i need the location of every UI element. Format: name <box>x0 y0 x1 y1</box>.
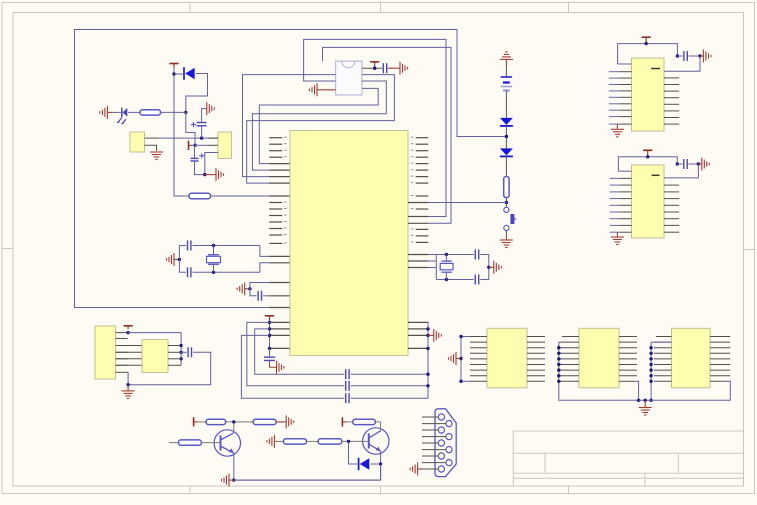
U1 left pins <box>269 137 289 348</box>
node junction X2 top <box>445 253 448 256</box>
wire emitter rail <box>234 479 381 481</box>
U6 pins <box>470 337 545 382</box>
ground chain top up <box>500 52 513 60</box>
U4 right pins <box>664 185 679 232</box>
wire U2 rightA to cap <box>362 65 382 68</box>
ground C1 right <box>207 102 215 115</box>
node junction U3 power <box>645 42 648 45</box>
wire U2 leftB loop to U1 right pin <box>304 39 446 216</box>
node junction rail2 <box>268 327 271 330</box>
ground C9 right <box>277 361 285 374</box>
title block <box>513 431 743 486</box>
J4 pin lines <box>422 417 446 463</box>
crystal Y2 <box>440 255 453 280</box>
wire C9 to ground <box>270 361 277 368</box>
node junction X1 left <box>178 258 181 261</box>
power bar U1 bottom-left <box>265 316 274 320</box>
IC U5 <box>142 340 168 373</box>
diode D4 <box>359 458 370 471</box>
IC U3 <box>632 58 665 131</box>
capacitor C6 <box>346 369 349 379</box>
capacitor C4 <box>188 267 191 277</box>
power bar VCC top-left <box>169 64 178 68</box>
node junction cap bus1 <box>426 327 429 330</box>
ground J3 bottom <box>122 391 135 399</box>
node junction C1 tap <box>200 136 203 139</box>
node junction VCC-D1 <box>172 72 175 75</box>
U3 left pins <box>609 72 632 124</box>
wire J1 pin1 to J2 pin1 <box>145 137 219 139</box>
IC U6 <box>487 328 527 388</box>
capacitor C1 polarized <box>191 122 207 127</box>
wire X1 ground stub <box>174 259 179 261</box>
node junction U4 cap right <box>697 162 700 165</box>
wire X2 ground stub <box>489 266 494 268</box>
connector J2 small <box>218 132 232 159</box>
wire X2 right mid <box>488 261 490 273</box>
node junction J3 ground <box>126 383 129 386</box>
ground LED left <box>100 106 112 119</box>
wire U2 rightB staircase <box>247 75 395 184</box>
battery B1 <box>501 77 512 91</box>
wire U2 leftA to U1 pin7 <box>243 75 336 177</box>
wire X2 top branch <box>436 255 489 262</box>
wire LED junction down to power-port node <box>186 112 195 145</box>
ground rail left <box>222 474 230 487</box>
wire U4 bottom pin to ground <box>616 232 618 236</box>
wire chain top stub <box>505 59 507 76</box>
wire rail ground stem <box>644 400 646 407</box>
switch SW1 <box>504 207 516 230</box>
J4 pin circles <box>438 414 452 472</box>
power bar Q1 <box>194 417 198 426</box>
wire C1 to ground <box>202 109 207 139</box>
transistor Q1 <box>214 430 240 456</box>
LED DS1 <box>117 108 127 124</box>
wire U3 bottom pin to ground <box>616 124 618 129</box>
node junction bus1 <box>179 344 182 347</box>
node junction rail3 <box>268 334 271 337</box>
connector J4 DB9 outline <box>435 409 456 477</box>
wire X1 bottom branch <box>179 260 269 273</box>
ground U3 right <box>703 50 711 63</box>
wire U2 ground stub <box>317 89 336 91</box>
node junction rail B <box>649 399 652 402</box>
wire X2 left bus <box>428 255 436 280</box>
wire X1 top branch <box>179 246 269 260</box>
wire chain to U1 pin <box>428 202 506 204</box>
node junction bus2 <box>179 351 182 354</box>
node junction chain loop <box>505 135 508 138</box>
diode D3 <box>500 148 513 156</box>
node junction C2 ground <box>203 173 206 176</box>
wire U4 right pin loop <box>664 164 698 178</box>
ground U3 bottom <box>611 129 624 137</box>
wire Q1 emitter <box>233 453 235 480</box>
wire C13 loop to ground <box>128 352 211 384</box>
node junction Q2 base <box>347 440 350 443</box>
ground R4 right <box>286 415 294 428</box>
U5 right pins <box>168 346 181 366</box>
wire U4 cap stub <box>698 163 701 165</box>
wire U7 bottom right pin <box>619 381 639 400</box>
wire LED to R1 <box>112 111 140 113</box>
wire U3 right pin loop <box>664 56 700 71</box>
wire C2 bottom to ground node <box>195 161 205 175</box>
resistor R6 <box>284 439 307 444</box>
wire J1 pin2 to ground <box>145 145 157 151</box>
wire C5 top branch <box>250 283 270 289</box>
node junction U2 power <box>373 67 376 70</box>
node junction Q1 collector <box>232 420 235 423</box>
node junction U3 cap right <box>698 54 701 57</box>
wire U6 ground stub <box>456 358 461 360</box>
node junction J3 pin1 <box>126 331 129 334</box>
wire U8 bottom right loop <box>651 381 730 400</box>
wire staircase net A <box>247 322 428 385</box>
wire J3 pins to U5 <box>116 346 143 366</box>
connector J3 <box>95 326 116 379</box>
ground J1 down <box>150 152 163 160</box>
resistor R1 <box>140 110 161 115</box>
wire Q2 collector <box>346 422 380 431</box>
wire stub to ground right <box>205 174 216 176</box>
ground chain bottom <box>500 240 513 248</box>
node junction rail4 <box>268 347 271 350</box>
wire U7 bus <box>559 342 639 400</box>
power bar U2 <box>370 62 379 65</box>
node junction Q1 emitter rail <box>232 478 235 481</box>
node junction rail C <box>644 399 647 402</box>
node junction U4 cap left <box>676 162 679 165</box>
wire J3 pin1 to bus <box>128 333 182 366</box>
wire Q2 emitter down <box>380 451 382 480</box>
wire X2 bottom branch <box>436 273 489 280</box>
U4 left pins <box>610 178 632 232</box>
node junction X2 ground <box>487 266 490 269</box>
node junction U6 bottom <box>459 380 462 383</box>
wire R1 to junction <box>161 111 186 113</box>
wire stub cap bus ground <box>428 334 434 336</box>
node junction Q2 emitter <box>379 462 382 465</box>
capacitor C13 <box>188 347 191 357</box>
node junction cap bus2 <box>426 334 429 337</box>
ground X2 right <box>494 261 502 274</box>
capacitor C12 <box>684 159 687 169</box>
IC U7 <box>579 328 619 388</box>
wire ground rail <box>639 399 652 401</box>
wire VCC vertical to R2 to U1 pin <box>174 68 270 197</box>
resistor R9 <box>504 177 509 198</box>
node junction cap bus4 <box>426 373 429 376</box>
wire R5 to Q1 base <box>201 442 220 444</box>
wire power to J2 pin2 <box>192 138 218 152</box>
capacitor C8 <box>346 393 349 403</box>
ground J4 left <box>410 463 418 476</box>
resistor R2 <box>189 193 211 198</box>
U4 pin1 mark <box>652 174 660 176</box>
wire rail to U1 pins <box>270 321 272 323</box>
capacitor C9 decoupling <box>264 357 275 360</box>
wire U3 cap stub <box>700 55 703 57</box>
wire Q1 collector top <box>198 422 254 433</box>
U7 pins <box>559 337 637 382</box>
wire R9 to switch <box>505 198 507 208</box>
node junction J2 pin2 <box>193 144 196 147</box>
wire U3 power loop <box>618 41 678 65</box>
U1 right pins <box>408 137 428 348</box>
node junction U4 power <box>646 155 649 158</box>
capacitor C2 polarized <box>191 153 205 161</box>
node junction U6 mid <box>459 357 462 360</box>
U8 pins <box>654 337 730 382</box>
wire switch to ground <box>505 231 507 241</box>
resistor R4 <box>253 419 276 424</box>
wire J2 pin3 down <box>205 153 218 175</box>
U7 bus junctions <box>557 346 560 383</box>
wire U2 rightC staircase <box>252 81 386 170</box>
resistor R5 <box>179 440 202 445</box>
ground C2 right <box>216 168 224 181</box>
wire J3 ground stem <box>127 385 129 391</box>
wire U2 top pin loop to U1 right pin <box>323 47 452 223</box>
node junction rail1 <box>268 321 271 324</box>
wire C10 to ground <box>388 67 400 69</box>
IC U2 <box>336 61 362 95</box>
capacitor C5 <box>258 291 261 301</box>
wire D1 zigzag to LED net <box>174 74 208 113</box>
ground U2 left <box>310 83 318 96</box>
U3 right pins <box>664 78 679 124</box>
node junction X1 bottom <box>212 271 215 274</box>
power bar J3 <box>124 326 133 329</box>
wire R4 to ground <box>276 421 286 423</box>
wire battery to D2 <box>505 91 507 118</box>
node junction X1 top <box>212 244 215 247</box>
crystal Y1 <box>207 246 221 273</box>
node junction cap bus5 <box>426 384 429 387</box>
ground U4 right <box>702 158 710 171</box>
node junction bus3 <box>179 357 182 360</box>
node junction U6 top <box>459 335 462 338</box>
node junction cap bus3 <box>426 347 429 350</box>
ground Q2 base left <box>267 435 275 448</box>
wire rail ground stub <box>229 479 234 481</box>
node junction LED wire <box>184 111 187 114</box>
U3 pin1 mark <box>651 68 660 70</box>
wire Q2 base chain <box>274 440 368 442</box>
wire U5 to C13 <box>181 351 187 353</box>
capacitor C15 <box>475 275 478 285</box>
ground U6 left <box>449 352 457 365</box>
wire Q2 bypass diode branch <box>349 441 358 464</box>
transistor Q2 <box>363 428 389 454</box>
wire D4 to emitter <box>371 463 381 465</box>
power bar U4 <box>643 150 652 153</box>
node junction U3 cap left <box>676 54 679 57</box>
resistor R8 <box>353 419 376 424</box>
wire right cap bus <box>426 322 428 398</box>
diode D2 <box>500 118 513 126</box>
wire U4 power loop <box>618 154 677 172</box>
ground rail bottom <box>639 408 652 416</box>
wire big loop net from U1 pin to diode chain <box>75 30 507 308</box>
wire U3 cap row <box>677 55 700 57</box>
power bar Q2 <box>342 417 346 426</box>
wire Q1 base input <box>169 442 179 444</box>
wire staircase net C <box>241 335 428 398</box>
ground C5 left <box>237 282 245 295</box>
wire Q2 emitter rail corner <box>234 464 381 480</box>
ground cap bus right <box>434 329 442 342</box>
main IC U1 <box>290 131 408 356</box>
wire C5 bottom branch <box>250 289 270 296</box>
IC U8 <box>672 328 711 388</box>
connector J1 small <box>130 132 145 152</box>
resistor R3 <box>206 419 226 424</box>
wire D3 to R9 <box>505 156 507 176</box>
node junction rail A <box>637 399 640 402</box>
J3 pins <box>116 333 128 373</box>
wire U4 cap row <box>677 163 698 165</box>
wire U2 rightD staircase <box>259 88 378 163</box>
capacitor C14 <box>475 250 478 260</box>
wire D2 to D3 <box>505 126 507 148</box>
wire rail4 to C9 <box>269 348 271 357</box>
wire C5 ground stub <box>245 288 250 290</box>
U8 bus junctions <box>649 346 652 383</box>
node junction X2 bottom <box>445 278 448 281</box>
node junction chain to U1 <box>505 201 508 204</box>
wire J4 pin5 ground <box>418 468 439 470</box>
ground U2 right <box>400 62 408 75</box>
capacitor C7 <box>346 381 349 391</box>
wire staircase net B <box>255 329 428 374</box>
ground X1 left <box>167 253 175 266</box>
resistor R7 <box>318 439 342 444</box>
wire U6 bus <box>461 337 470 382</box>
IC U4 <box>632 165 665 238</box>
wire C2 top to junction <box>194 145 196 158</box>
capacitor C11 <box>684 51 687 61</box>
diode D1 <box>184 67 195 80</box>
capacitor C3 <box>188 241 191 251</box>
ground U4 bottom <box>611 237 624 245</box>
wire U8 bus <box>650 342 652 400</box>
node junction C5 <box>248 287 251 290</box>
wire U8 bus top bend <box>651 341 671 343</box>
power bar U3 <box>642 37 651 40</box>
wire J3 pin7 down <box>127 372 130 384</box>
power bar J2 pin2 <box>189 141 193 150</box>
capacitor C10 <box>383 63 386 73</box>
wire power rail vertical <box>269 320 271 348</box>
